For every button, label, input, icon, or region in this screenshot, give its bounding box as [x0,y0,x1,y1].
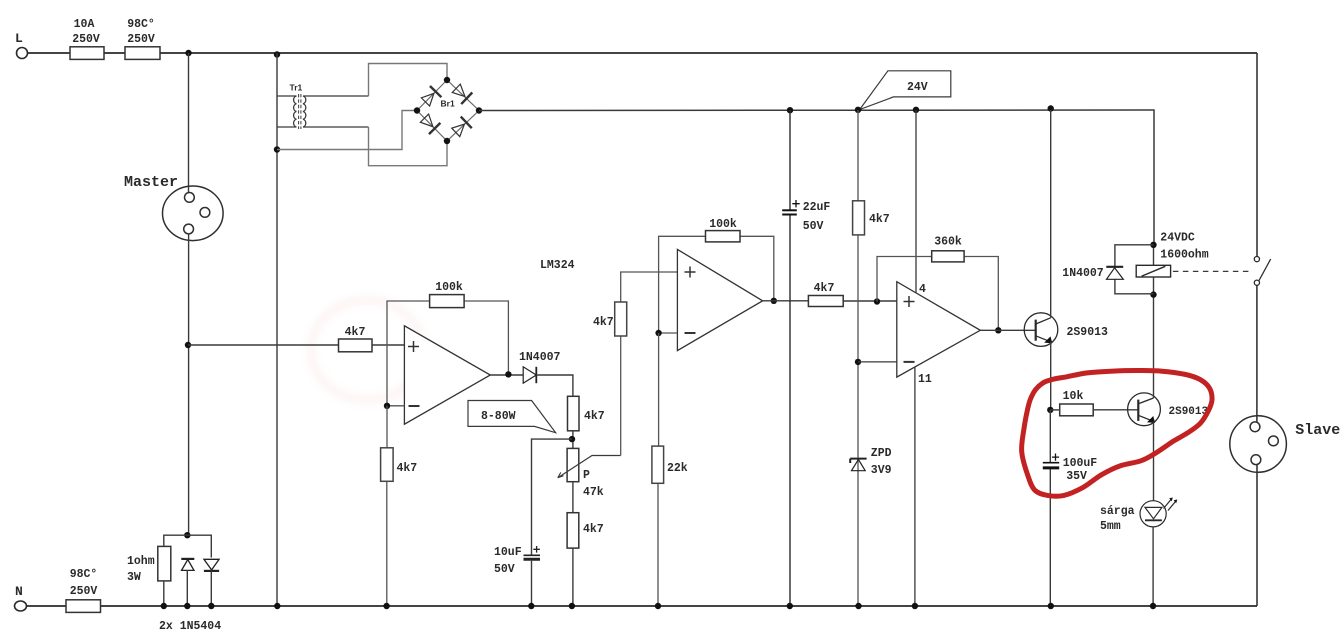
pin 11 ground stub [914,368,916,607]
node relay top junction [1150,242,1156,248]
resistor 1ohm 3W [158,546,171,581]
svg-text:Tr1: Tr1 [290,83,303,93]
svg-text:100uF: 100uF [1063,457,1098,470]
node output junction U1a [505,371,511,377]
svg-text:8-80W: 8-80W [481,410,516,423]
svg-text:47k: 47k [583,486,604,499]
diode bridge top-left [420,86,442,108]
node delay junction [1047,407,1053,413]
diode D2 1N5404 (left, cathode up) [181,559,194,571]
wire 24V rail [479,110,1154,245]
node output junction U1b [771,298,777,304]
wire Q1 emitter down [1050,342,1052,410]
zener ZPD 3V9 [850,459,866,471]
wire Q2 emitter to LED [1153,421,1155,501]
svg-text:10uF: 10uF [494,546,522,559]
thermal fuse 98C 250V [125,47,160,60]
svg-text:1ohm: 1ohm [127,555,155,568]
wire 10uF to rail [531,561,533,606]
diode D1 1N4007 [523,367,536,383]
resistor 360k [932,251,964,262]
svg-text:35V: 35V [1066,470,1087,483]
switch S1 [1254,257,1270,286]
wire left diode to rail [186,570,188,606]
svg-text:Br1: Br1 [441,99,455,109]
node bridge right [476,107,482,113]
svg-text:1N4007: 1N4007 [519,351,561,364]
resistor 4k7 (input) [339,339,373,352]
svg-text:N: N [15,584,23,599]
wire -in pulldown [386,406,388,606]
potentiometer P 47k [567,448,579,481]
resistor 100k feedback U1b [706,231,741,242]
node bridge left [414,107,420,113]
node junction top rail / master line [185,50,191,56]
wire flyback loop [1115,245,1154,294]
wire shunt top link [164,535,212,557]
resistor 100k feedback U1a [430,295,465,308]
node bridge top [444,77,450,83]
svg-text:98C°: 98C° [127,18,155,31]
wire N bottom rail [27,605,1258,607]
diode bridge bottom-left [419,113,441,135]
svg-text:Master: Master [124,174,178,191]
wire diode to divider [536,375,573,396]
wire sense to R input [188,344,339,346]
flag 24V [860,71,951,110]
svg-text:100k: 100k [709,218,737,231]
wire feedback 360k U1c [877,257,998,331]
svg-text:24V: 24V [907,81,928,94]
wire mechanical link (dashed) [1173,270,1249,272]
node output junction U1c [995,327,1001,333]
wire L top rail [28,52,1258,54]
terminal L [17,48,28,59]
op-amp U1c [897,282,981,377]
wire slave drop from top rail [1256,53,1258,257]
wire feedback U1a [387,301,508,406]
svg-text:4k7: 4k7 [345,326,366,339]
diode D3 1N5404 (right, cathode down) [204,559,219,571]
wire node to 10k and cap [1050,410,1059,606]
wire primary drop [276,53,278,606]
node -in junction U1a [384,403,390,409]
svg-text:22k: 22k [667,462,688,475]
resistor 4k7 (stage coupling) [808,296,843,307]
svg-text:P: P [583,469,590,482]
svg-text:2x 1N5404: 2x 1N5404 [159,620,221,633]
capacitor 100uF 35V [1043,454,1059,468]
resistor 4k7 (divider top) [568,396,580,431]
capacitor 10uF 50V [524,546,541,559]
node junction primary/bridge-return [274,146,280,152]
node rail junction zener line [855,107,861,113]
svg-text:250V: 250V [72,33,100,46]
svg-text:4k7: 4k7 [869,213,890,226]
svg-text:Slave: Slave [1295,422,1340,439]
socket Slave [1230,416,1287,473]
wire master socket to sense node [188,234,190,535]
svg-text:1600ohm: 1600ohm [1160,249,1208,262]
node sense junction (op-amp input tap) [185,342,191,348]
node rail junction pin4 line [913,107,919,113]
terminal N [15,601,27,611]
svg-text:ZPD: ZPD [871,447,892,460]
wire 22k pulldown [657,333,660,606]
node bridge bottom [444,138,450,144]
svg-text:3V9: 3V9 [871,464,892,477]
op-amp U1b [677,249,762,350]
svg-text:100k: 100k [435,281,463,294]
resistor 4k7 (wiper filter) [615,302,627,336]
wire R to +in [372,344,404,346]
wire U1a output [490,374,523,376]
node +in junction U1c [874,298,880,304]
svg-text:50V: 50V [803,220,824,233]
wire -in U1c [858,361,897,363]
resistor 4k7 (pulldown U1a) [381,448,394,482]
wire 1ohm to rail [163,581,165,606]
transformer Tr1 [277,94,369,129]
wire right diode to rail [210,571,212,606]
svg-text:LM324: LM324 [540,259,575,272]
wire lower R to rail [572,548,574,606]
svg-text:4k7: 4k7 [593,316,614,329]
node divider junction [569,436,575,442]
wire secondary route to bridge [277,64,447,166]
svg-text:22uF: 22uF [803,201,831,214]
wire slave rise from bottom rail [1256,464,1258,606]
svg-text:4k7: 4k7 [584,410,605,423]
svg-text:1N4007: 1N4007 [1062,267,1104,280]
node junction top rail / transformer line [274,51,280,57]
resistor 22k [652,446,664,483]
svg-text:4k7: 4k7 [583,523,604,536]
node relay bottom junction [1150,291,1156,297]
wire master drop [188,53,190,192]
diode D4 1N4007 (flyback, cathode up) [1106,267,1123,280]
wire relay line to Q2 collector [1153,245,1155,398]
svg-text:3W: 3W [127,571,141,584]
wire junction to 10uF [532,439,573,554]
thermal fuse 98C 250V (N side) [66,600,101,613]
svg-text:24VDC: 24VDC [1160,232,1195,245]
svg-text:5mm: 5mm [1100,520,1121,533]
node junction at 1ohm/diodes top [184,532,190,538]
resistor 10k [1060,404,1094,416]
svg-text:4k7: 4k7 [397,462,418,475]
op-amp U1a [404,326,490,424]
resistor 4k7 (divider bottom) [567,513,579,548]
socket Master [163,186,224,241]
svg-text:250V: 250V [70,585,98,598]
svg-text:10A: 10A [74,18,95,31]
wire Q1 collector up [1050,110,1052,318]
relay coil K1 [1136,265,1170,277]
svg-text:98C°: 98C° [70,568,98,581]
svg-text:11: 11 [918,373,932,386]
wire to pot node [572,431,574,449]
resistor 4k7 (zener feed) [853,201,865,235]
wire LED to rail [1152,527,1154,606]
wire pot to lower R [572,482,574,513]
svg-text:2S9013: 2S9013 [1067,326,1109,339]
node -in junction U1b [655,330,661,336]
svg-text:360k: 360k [934,236,962,249]
red marker loop [1022,371,1212,497]
wire U1b out to R [763,300,897,302]
LED sarga 5mm [1140,500,1176,527]
svg-text:50V: 50V [494,563,515,576]
capacitor 22uF 50V [789,110,791,606]
fuse F1 10A 250V [70,47,104,60]
diode bridge bottom-right [450,117,472,139]
node -in junction U1c [855,359,861,365]
wire zener line [857,110,859,606]
pin 4 supply stub [915,110,917,293]
bridge Br1 outline [417,80,479,141]
transistor Q1 2S9013 [1024,313,1058,347]
wire U1c output to Q1 base [980,329,1035,331]
diode bridge top-right [451,83,473,105]
transistor Q2 2S9013 [1128,393,1161,426]
svg-text:L: L [15,31,23,46]
wire feedback U1b [659,236,774,333]
callout 8-80W [468,401,556,433]
svg-text:10k: 10k [1063,390,1084,403]
node rail junction Q1 collector [1048,105,1054,111]
svg-text:4k7: 4k7 [814,282,835,295]
wire 10k to Q2 base [1093,409,1138,411]
wire switch to slave socket [1256,285,1258,421]
svg-text:250V: 250V [127,33,155,46]
node rail junction 22uF [787,107,793,113]
svg-text:4: 4 [919,283,926,296]
wire wiper line up to +in [621,272,678,456]
svg-text:sárga: sárga [1100,505,1135,518]
